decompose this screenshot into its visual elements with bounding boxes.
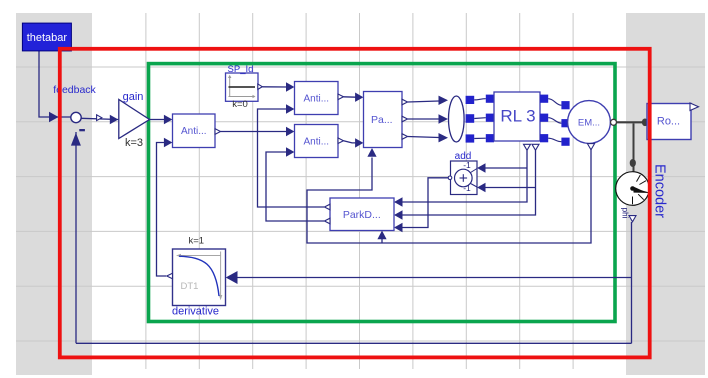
svg-text:Anti...: Anti... — [304, 137, 330, 148]
motor connector curves — [548, 99, 561, 106]
arrow up into feedback — [71, 133, 81, 146]
wire Anti2 to Pa — [344, 96, 357, 98]
encoder output port — [629, 216, 636, 222]
feedback output port — [97, 115, 102, 121]
DT1 output port — [167, 273, 173, 279]
white diagram frame area — [92, 13, 626, 375]
wire feedback to gain — [81, 118, 118, 119]
wire encoder to DT1 — [237, 277, 632, 279]
block ParkD — [330, 198, 394, 231]
svg-text:k=3: k=3 — [125, 137, 143, 149]
wire ParkD out2 to Anti3 lower — [266, 152, 324, 221]
wire derivative to Anti1 lower input — [157, 143, 167, 277]
svg-text:DT1: DT1 — [181, 281, 199, 292]
Anti1 output port — [215, 129, 221, 135]
arrow into Anti2 bottom — [286, 104, 294, 113]
feedback loop wire bottom — [76, 342, 632, 344]
wire RL3 port1 down to ParkD — [395, 150, 527, 202]
wire ParkD out1 to Anti2 lower — [258, 109, 325, 207]
wire Anti3 to Pa — [344, 141, 357, 143]
encoder circle — [616, 172, 650, 206]
plug connector curves — [474, 99, 486, 100]
svg-text:Anti...: Anti... — [304, 94, 330, 105]
arrow into add top — [477, 163, 485, 172]
svg-text:phi: phi — [620, 208, 629, 219]
svg-text:k=1: k=1 — [189, 235, 205, 246]
svg-text:Pa...: Pa... — [371, 114, 393, 126]
arrow into Pa lower — [355, 138, 363, 147]
wire add output to ParkD — [395, 178, 448, 228]
terminal squares EM side — [561, 101, 569, 109]
block DT1 derivative — [173, 249, 226, 306]
arrow into ParkD mid input — [394, 210, 402, 219]
arrow into Pa top — [355, 93, 363, 102]
Ro output flag — [690, 103, 699, 111]
svg-text:Ro...: Ro... — [657, 115, 680, 127]
block Ro — [647, 104, 691, 140]
svg-text:Encoder: Encoder — [652, 164, 668, 218]
flange wire EM to Ro — [617, 121, 648, 123]
block add — [451, 161, 478, 195]
arrow into ParkD bottom-right input — [394, 223, 402, 232]
DT1 curve — [179, 256, 219, 296]
wire RL3 port2 down to ParkD — [395, 150, 536, 215]
svg-text:Anti...: Anti... — [181, 126, 207, 137]
arrow into gain — [110, 115, 119, 124]
svg-text:SP_Id: SP_Id — [228, 64, 254, 75]
svg-text:EM...: EM... — [578, 117, 600, 128]
wire Anti1 to Anti3 — [221, 131, 288, 133]
encoder needle — [633, 186, 647, 193]
feedback summing circle — [71, 112, 81, 122]
wire gain to Anti1 — [150, 119, 165, 121]
SP_Id axes — [229, 77, 254, 97]
gain triangle — [119, 100, 150, 139]
arrow into DT1 — [226, 271, 238, 284]
wire encoder down and feedback loop — [631, 222, 633, 343]
wire add top input — [484, 167, 528, 169]
Pa output ports — [402, 99, 408, 105]
arrow into Anti1 bottom — [164, 138, 173, 147]
SP_Id output port — [258, 84, 263, 89]
arrow into Anti1 top — [164, 115, 173, 124]
EM circle — [568, 101, 611, 144]
flange joint diamond — [630, 159, 636, 167]
arrow up into ParkD bottom — [377, 231, 386, 240]
flange joint ellipse — [642, 119, 648, 127]
terminal squares RL3 left edge — [486, 95, 494, 103]
svg-text:RL 3: RL 3 — [500, 107, 535, 126]
Anti3 output port — [338, 138, 344, 144]
svg-text:k=0: k=0 — [232, 99, 248, 110]
svg-text:derivative: derivative — [172, 306, 219, 318]
RL3 bottom ports — [524, 144, 531, 150]
block Anti3 — [295, 125, 339, 158]
SP_Id constant line — [229, 86, 256, 88]
wire SP_Id to Anti2 — [262, 86, 287, 88]
wire add bottom input — [484, 187, 536, 189]
plug ellipse — [449, 96, 465, 142]
arrow into feedback — [49, 112, 59, 122]
red annotation rectangle — [60, 49, 650, 358]
arrow into Anti2 top — [286, 82, 294, 91]
flange wire down to encoder — [633, 124, 635, 172]
add output port — [448, 176, 452, 180]
EM right flange port — [611, 119, 617, 125]
wire up into feedback — [75, 132, 77, 343]
block Anti2 — [295, 82, 339, 115]
svg-text:-1: -1 — [463, 160, 471, 170]
svg-text:-1: -1 — [463, 183, 471, 193]
ParkD output ports — [324, 204, 330, 210]
encoder hub — [630, 186, 635, 191]
arrows into plug — [439, 96, 449, 105]
branch wire up into ParkD bottom — [381, 235, 383, 243]
EM bottom port — [587, 144, 594, 150]
encoder ticks — [633, 175, 648, 204]
Anti2 output port — [338, 94, 344, 100]
DT1 axes — [178, 255, 222, 257]
arrow into ParkD top input — [394, 197, 402, 206]
arrow up into Pa bottom — [367, 148, 376, 157]
wire thetabar to feedback — [39, 51, 71, 117]
wire EM shaft angle to Pa and ParkD — [307, 150, 591, 244]
terminal squares left column — [466, 96, 475, 104]
source block thetabar — [22, 23, 71, 51]
svg-text:gain: gain — [123, 91, 144, 103]
block Anti1 — [173, 114, 216, 148]
minus sign — [79, 129, 85, 131]
svg-text:thetabar: thetabar — [27, 32, 68, 44]
wires Pa to plug — [408, 101, 440, 102]
block Pa — [364, 92, 403, 148]
svg-text:ParkD...: ParkD... — [343, 209, 381, 221]
green annotation rectangle — [149, 64, 616, 322]
arrow into Anti3 top — [286, 127, 294, 136]
arrow into add bottom — [477, 183, 485, 192]
terminal squares RL3 right edge — [540, 95, 548, 103]
block SP_Id — [226, 73, 259, 101]
arrow into Anti3 bottom — [286, 147, 294, 156]
block RL3 — [494, 92, 540, 141]
